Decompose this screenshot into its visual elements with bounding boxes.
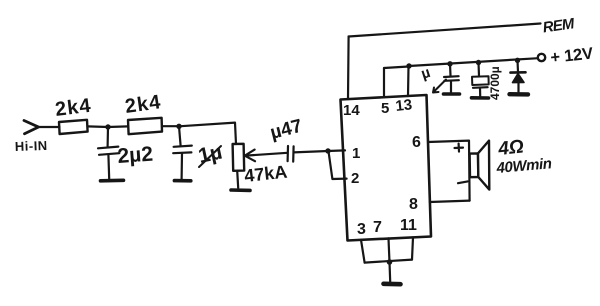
wire bus pins 5-13: [384, 67, 409, 69]
ground C4: [444, 92, 460, 96]
svg-text:13: 13: [395, 96, 413, 115]
node D on +12V rail: [406, 63, 411, 68]
capacitor C2 1µ: [173, 126, 192, 179]
svg-text:6: 6: [412, 134, 421, 151]
wire pin 14 up: [347, 37, 350, 99]
svg-text:REM: REM: [542, 15, 576, 36]
wiper arrow of P1: [245, 150, 288, 162]
svg-text:7: 7: [373, 219, 382, 236]
svg-text:4700µ: 4700µ: [488, 66, 502, 100]
svg-text:2k4: 2k4: [54, 95, 93, 121]
svg-text:µ: µ: [419, 64, 432, 83]
wire P1 to ground: [237, 171, 238, 188]
ground C5: [472, 96, 489, 100]
svg-text:8: 8: [409, 196, 418, 213]
svg-text:1: 1: [352, 145, 360, 162]
svg-text:11: 11: [400, 217, 417, 234]
capacitor C1 2µ2: [98, 127, 119, 179]
wire bus pins 3-7-11: [365, 260, 412, 263]
wire input to R1: [39, 126, 60, 128]
wire pin 6 to speaker: [428, 141, 470, 201]
wire C3 to node C: [294, 151, 328, 152]
capacitor C4 µ1: [444, 64, 459, 93]
svg-text:2k4: 2k4: [124, 91, 163, 118]
wire pin 7 down: [389, 238, 390, 262]
svg-text:47kA: 47kA: [243, 162, 288, 186]
wire +12V rail: [409, 58, 539, 66]
svg-text:Hi-IN: Hi-IN: [15, 138, 48, 154]
node C: [325, 148, 330, 153]
svg-text:1µ: 1µ: [196, 140, 224, 167]
label µ1 of C4: [419, 64, 446, 93]
svg-text:2µ2: 2µ2: [117, 143, 154, 168]
svg-text:14: 14: [343, 102, 360, 119]
svg-text:µ47: µ47: [268, 116, 304, 144]
svg-text:40Wmin: 40Wmin: [495, 155, 553, 177]
ground D1: [510, 92, 529, 97]
node G: [515, 58, 520, 63]
svg-text:5: 5: [381, 100, 389, 117]
stroke through 1µ label: [199, 146, 221, 167]
plus mark speaker: [455, 144, 464, 152]
wire node A to R2: [108, 125, 128, 128]
potentiometer P1 47kA body: [233, 144, 245, 171]
node B: [176, 124, 181, 129]
ground U1: [384, 281, 401, 286]
minus mark speaker: [458, 181, 468, 183]
wire node H to ground: [388, 262, 391, 282]
svg-text:4Ω: 4Ω: [496, 136, 525, 160]
resistor R1 2k4: [59, 120, 88, 134]
wire R2 to node B: [162, 125, 179, 127]
capacitor C5 4700µ electrolytic: [472, 63, 489, 97]
speaker LS1: [470, 141, 490, 190]
wire pin 5 up: [383, 68, 385, 97]
ground C1: [101, 179, 124, 183]
input jack HI-IN: [24, 121, 39, 134]
terminal +12V: [538, 54, 545, 61]
diode D1: [511, 60, 526, 92]
wire speaker to pin 8: [430, 201, 470, 202]
ground P1: [231, 188, 250, 192]
label C2 1µ: [196, 140, 224, 167]
node F: [476, 60, 481, 65]
svg-text:+ 12V: + 12V: [550, 45, 594, 67]
wire R1 to node A: [88, 125, 108, 128]
wire pin 3 down: [361, 240, 365, 263]
wire node B to P1: [179, 123, 236, 144]
ground C2: [174, 179, 190, 183]
op-amp U1 amplifier IC body: [341, 95, 432, 241]
wire to REM: [349, 24, 541, 37]
wire node C to pin 2: [329, 152, 347, 179]
svg-text:3: 3: [357, 221, 366, 238]
svg-text:2: 2: [351, 170, 359, 187]
wire node C to pin 1: [328, 149, 345, 152]
node A: [105, 124, 110, 129]
capacitor C3 µ47: [288, 146, 294, 162]
wire pin 11 down: [412, 237, 413, 259]
wire pin 13 up: [407, 67, 410, 97]
node E: [447, 61, 452, 66]
node H: [387, 259, 393, 265]
resistor R2 2k4: [128, 118, 162, 134]
